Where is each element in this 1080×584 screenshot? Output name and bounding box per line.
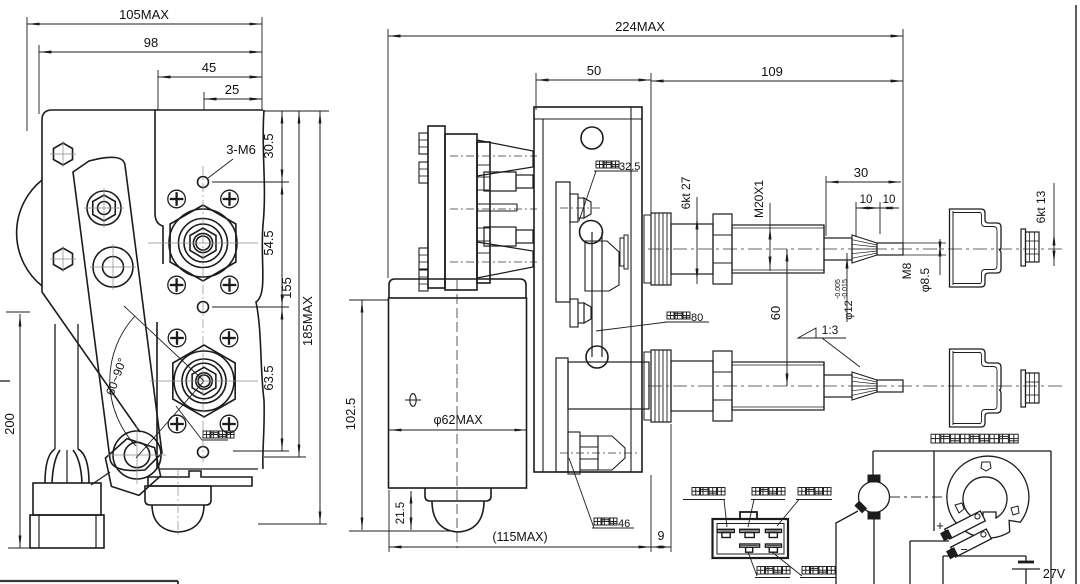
svg-text:-0.005: -0.005	[835, 279, 842, 299]
svg-text:45: 45	[202, 60, 216, 75]
svg-text:155: 155	[279, 277, 294, 299]
svg-text:9: 9	[658, 529, 665, 543]
svg-text:98: 98	[144, 35, 158, 50]
svg-text:(115MAX): (115MAX)	[492, 530, 547, 544]
svg-text:10: 10	[883, 194, 896, 206]
svg-text:φ8.5: φ8.5	[918, 267, 932, 292]
svg-text:3-M6: 3-M6	[226, 142, 256, 157]
svg-text:200: 200	[2, 413, 17, 435]
svg-text:25: 25	[225, 82, 239, 97]
svg-text:+: +	[936, 518, 944, 533]
svg-text:-0.015: -0.015	[842, 279, 849, 299]
svg-text:185MAX: 185MAX	[300, 296, 315, 346]
svg-text:21.5: 21.5	[395, 502, 407, 524]
svg-text:1:3: 1:3	[822, 323, 839, 337]
svg-text:−: −	[960, 542, 968, 557]
svg-text:M8: M8	[900, 262, 914, 279]
svg-text:102.5: 102.5	[343, 398, 358, 431]
svg-text:60: 60	[768, 306, 783, 320]
svg-text:109: 109	[761, 64, 783, 79]
svg-text:6kt 13: 6kt 13	[1034, 190, 1048, 223]
svg-text:10: 10	[860, 194, 873, 206]
svg-text:6kt 27: 6kt 27	[679, 176, 693, 209]
svg-text:φ62MAX: φ62MAX	[433, 413, 483, 427]
svg-text:M20X1: M20X1	[752, 180, 766, 218]
svg-text:105MAX: 105MAX	[119, 7, 169, 22]
svg-text:224MAX: 224MAX	[615, 19, 665, 34]
svg-text:30: 30	[854, 165, 868, 180]
svg-text:27V: 27V	[1043, 567, 1066, 581]
svg-text:50: 50	[587, 63, 601, 78]
svg-text:φ12: φ12	[843, 300, 855, 319]
